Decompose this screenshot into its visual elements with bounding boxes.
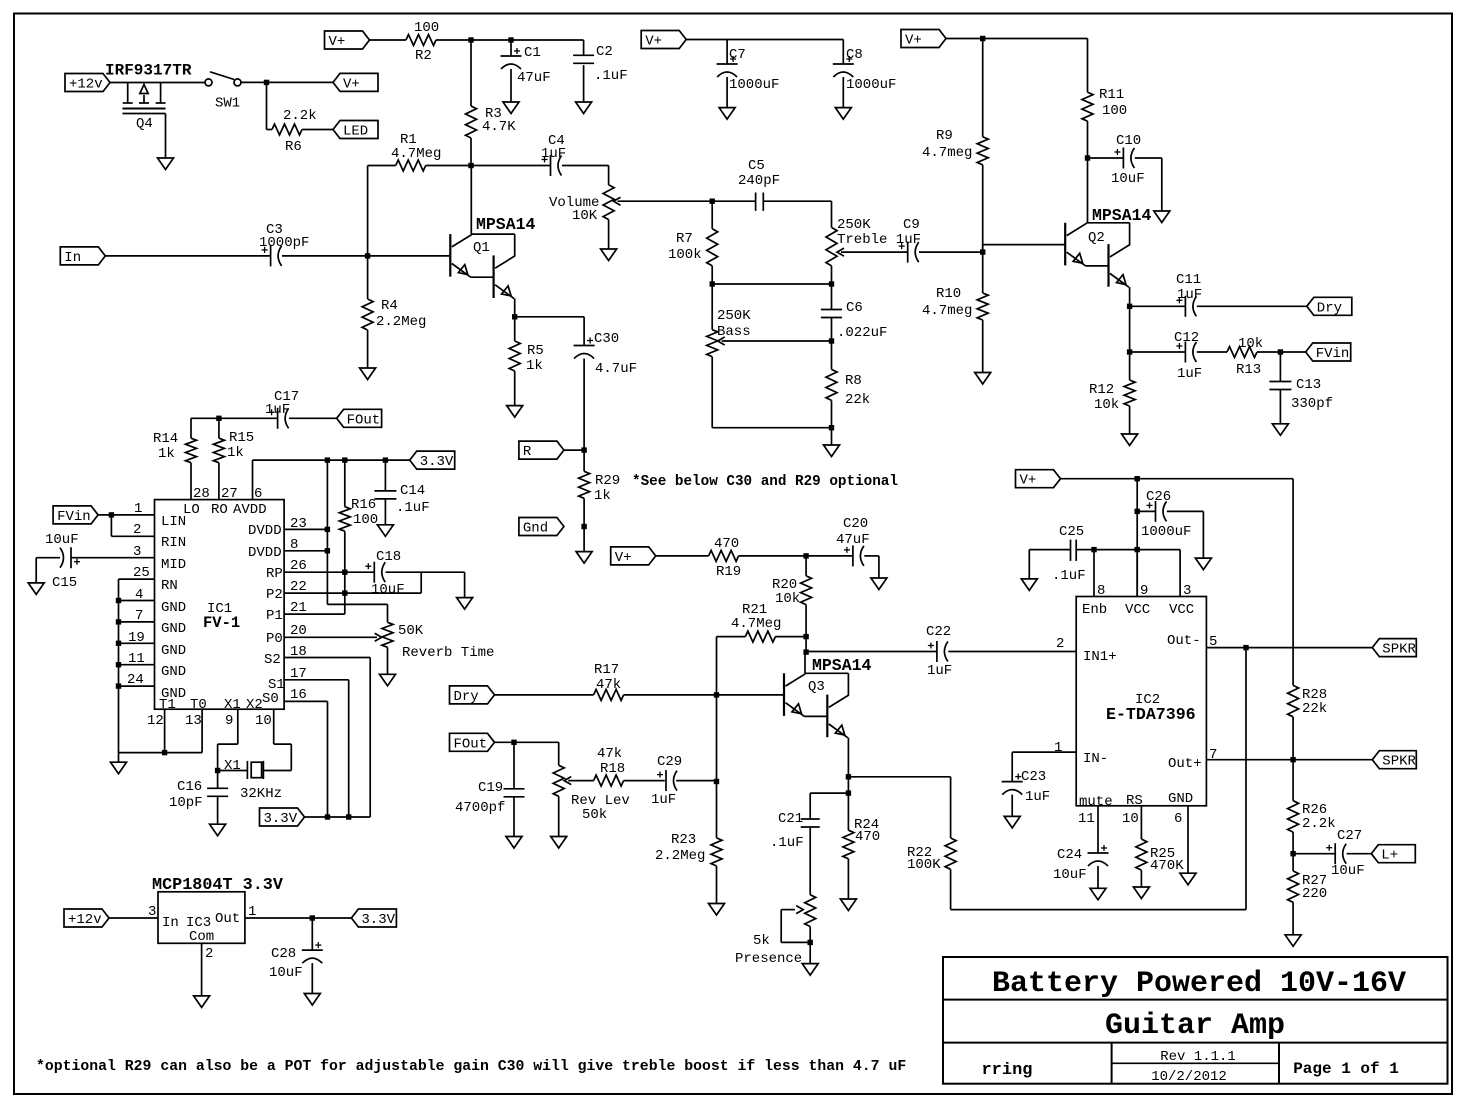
wire S0 pin 16	[284, 687, 327, 817]
node junction RP/R16 column	[342, 570, 347, 575]
svg-text:C18: C18	[376, 549, 401, 565]
svg-text:10/2/2012: 10/2/2012	[1151, 1069, 1227, 1085]
ground below presence pot	[802, 964, 818, 976]
ground below C10	[1154, 211, 1170, 223]
transistor Q4 IRF9317TR p-mosfet	[105, 62, 205, 159]
svg-text:1uF: 1uF	[651, 792, 676, 808]
svg-text:P2: P2	[266, 587, 283, 603]
net flag Dry input lower	[450, 686, 495, 705]
capacitor C2 .1uF	[573, 40, 628, 102]
capacitor C30 4.7uF	[574, 331, 637, 377]
svg-text:1uF: 1uF	[1177, 366, 1202, 382]
net flag LED	[333, 121, 378, 140]
svg-text:SPKR: SPKR	[1382, 754, 1416, 770]
svg-text:470K: 470K	[1150, 858, 1184, 874]
resistor R19 470	[709, 536, 742, 580]
svg-text:C22: C22	[926, 624, 951, 640]
wire R29 to Gnd node	[583, 498, 585, 551]
pin 26 RP wire to C18	[266, 558, 374, 582]
svg-text:Reverb Time: Reverb Time	[402, 645, 494, 661]
ground below C25	[1021, 579, 1037, 591]
ground below R25	[1133, 887, 1149, 899]
resistor R12 10k	[1089, 352, 1135, 413]
capacitor C9 1uF	[899, 217, 983, 263]
wire emitter junction right to R22	[848, 777, 950, 838]
svg-text:1uF: 1uF	[1025, 789, 1050, 805]
wire R6 to LED flag	[302, 129, 333, 131]
svg-text:1k: 1k	[227, 445, 244, 461]
labels S2 S1 inside	[264, 652, 285, 693]
capacitor C29 1uF	[651, 754, 717, 808]
capacitor C17 1uF	[219, 389, 337, 429]
svg-text:1k: 1k	[158, 446, 175, 462]
svg-text:Out: Out	[215, 911, 240, 927]
svg-text:4: 4	[135, 587, 143, 603]
svg-text:V+: V+	[905, 33, 922, 49]
svg-text:4.7Meg: 4.7Meg	[731, 616, 781, 632]
svg-text:R4: R4	[381, 298, 398, 314]
wire R18 to C29	[624, 780, 665, 782]
node junction In/R4	[365, 253, 370, 258]
wire R2 to C2 corner	[436, 39, 584, 41]
svg-text:10K: 10K	[572, 208, 598, 224]
svg-text:26: 26	[290, 558, 307, 574]
svg-text:RP: RP	[266, 566, 283, 582]
node junction R26/C27/R27	[1290, 832, 1295, 871]
svg-text:FV-1: FV-1	[203, 614, 240, 632]
ground below C15	[28, 583, 44, 595]
pin 10 RS wire	[1122, 806, 1141, 839]
capacitor C12 1uF	[1130, 330, 1227, 382]
ground below reverb pot	[380, 674, 396, 686]
ground below tone stack	[824, 428, 840, 457]
ground below R24	[840, 899, 856, 911]
svg-text:X2: X2	[246, 697, 263, 713]
ground below C19	[506, 837, 522, 849]
capacitor C13 330pf	[1269, 352, 1333, 424]
wire pin1 junction to pin 2	[111, 515, 186, 551]
svg-text:MID: MID	[161, 557, 186, 573]
svg-text:GND: GND	[161, 643, 186, 659]
pin 2 label	[1056, 636, 1064, 652]
node junction R8 bottom	[829, 425, 834, 430]
svg-text:10pF: 10pF	[169, 795, 203, 811]
wire R7 to lower junction	[711, 266, 713, 284]
VCC rail wire	[1094, 549, 1180, 551]
ground below C13	[1272, 424, 1288, 436]
pin 11 mute wire	[1078, 806, 1098, 853]
svg-text:In: In	[64, 250, 81, 266]
wire R15 to pin 27	[218, 463, 220, 500]
capacitor C11 1uF	[1130, 272, 1307, 317]
node junction crystal/C16	[215, 768, 220, 773]
svg-text:250K: 250K	[717, 308, 751, 324]
svg-text:MPSA14: MPSA14	[476, 215, 536, 234]
svg-text:1: 1	[134, 501, 142, 517]
pin 13 wire	[185, 709, 202, 752]
regulator IC3 MCP1804T 3.3V	[152, 876, 284, 945]
resistor R23 2.2Meg	[655, 782, 722, 866]
resistor R11 100	[1082, 87, 1127, 121]
resistor R18 47k	[594, 775, 624, 786]
pin 10 wire to crystal	[255, 709, 291, 770]
net flag Dry output	[1307, 297, 1352, 316]
svg-text:Out+: Out+	[1168, 756, 1202, 772]
svg-text:C20: C20	[843, 516, 868, 532]
svg-text:2.2k: 2.2k	[1302, 816, 1336, 832]
svg-text:1000pF: 1000pF	[259, 235, 309, 251]
power flag +12v	[65, 74, 110, 93]
input net flag In	[60, 247, 105, 266]
svg-text:.1uF: .1uF	[396, 500, 430, 516]
resistor R24 470	[843, 793, 880, 859]
svg-text:DVDD: DVDD	[248, 545, 282, 561]
svg-text:R14: R14	[153, 431, 178, 447]
node junction V+/R9	[980, 36, 985, 41]
svg-text:1: 1	[1054, 740, 1062, 756]
note text See below	[632, 474, 898, 490]
capacitor C10 10uF	[1088, 133, 1162, 211]
ground below C23	[1004, 816, 1020, 828]
svg-text:Guitar Amp: Guitar Amp	[1105, 1009, 1285, 1043]
net flag 3.3V out	[351, 909, 396, 928]
svg-text:10k: 10k	[1094, 397, 1119, 413]
wire R9 to base junction	[982, 165, 984, 293]
svg-text:1000uF: 1000uF	[729, 77, 779, 93]
svg-text:28: 28	[193, 486, 210, 502]
svg-text:MPSA14: MPSA14	[812, 656, 872, 675]
svg-text:*See below C30 and R29 optiona: *See below C30 and R29 optional	[632, 474, 898, 490]
node junction R1/R3/C4/Q1 collector	[468, 163, 473, 168]
node junction R13/C13	[1278, 349, 1283, 354]
svg-text:11: 11	[1078, 811, 1095, 827]
resistor R3 4.7K	[466, 106, 517, 138]
capacitor C18 10uF	[365, 549, 464, 598]
power flag V+ amp	[1016, 470, 1061, 489]
svg-text:8: 8	[290, 537, 298, 553]
svg-text:2.2Meg: 2.2Meg	[655, 848, 705, 864]
wire R2 junction down to R3	[470, 40, 472, 106]
net flag Gnd	[519, 518, 564, 537]
svg-text:In: In	[162, 915, 179, 931]
svg-text:100: 100	[353, 512, 378, 528]
node junction R19/R20/C20	[803, 553, 808, 558]
svg-text:9: 9	[225, 713, 233, 729]
svg-text:C21: C21	[778, 811, 803, 827]
svg-text:VCC: VCC	[1169, 602, 1194, 618]
ground below C8	[835, 108, 851, 120]
svg-text:24: 24	[127, 672, 144, 688]
pin 6 label	[254, 486, 262, 502]
ground below C20	[871, 578, 887, 590]
svg-text:FVin: FVin	[57, 509, 91, 525]
ground below Q4	[158, 158, 174, 170]
wire gnd column to pins 12 13	[119, 752, 203, 754]
svg-text:RN: RN	[161, 578, 178, 594]
svg-text:S2: S2	[264, 652, 281, 668]
resistor R7 100k	[668, 201, 718, 266]
svg-text:1k: 1k	[594, 488, 611, 504]
resistor R6 2.2k	[272, 108, 317, 155]
net flag SPKR lower	[1372, 751, 1416, 770]
svg-text:R8: R8	[845, 373, 862, 389]
ground below R23	[709, 904, 725, 916]
svg-text:3: 3	[133, 544, 141, 560]
node junction R15 top	[216, 416, 221, 439]
pin 12 wire	[147, 709, 167, 755]
ground below R27	[1285, 935, 1301, 947]
svg-text:Out-: Out-	[1167, 633, 1201, 649]
svg-text:10uF: 10uF	[1053, 867, 1087, 883]
svg-text:T1: T1	[159, 697, 176, 713]
svg-text:C16: C16	[177, 779, 202, 795]
svg-text:V+: V+	[329, 34, 346, 50]
svg-text:100K: 100K	[907, 857, 941, 873]
capacitor C1 47uF	[501, 40, 551, 102]
svg-text:AVDD: AVDD	[233, 502, 267, 518]
pin 4 GND wire	[116, 587, 186, 616]
ground below Volume	[601, 249, 617, 261]
wire 3.3V column down to reverb pot	[327, 460, 387, 622]
svg-text:4.7meg: 4.7meg	[922, 303, 972, 319]
svg-text:21: 21	[290, 600, 307, 616]
capacitor C25 .1uF	[1029, 524, 1094, 584]
svg-text:C27: C27	[1337, 828, 1362, 844]
net flag FOut lower	[450, 733, 495, 752]
svg-text:C15: C15	[52, 575, 77, 591]
node junction S1 column	[346, 814, 351, 819]
resistor R26 2.2k	[1288, 760, 1336, 832]
pin 7 GND wire	[116, 608, 186, 637]
wire R25 to ground	[1140, 870, 1142, 887]
svg-text:Com: Com	[189, 929, 214, 945]
svg-text:10: 10	[255, 713, 272, 729]
wire R24 to ground	[847, 859, 849, 899]
pin 11 GND wire	[116, 651, 186, 680]
svg-text:GND: GND	[1168, 791, 1193, 807]
svg-text:R12: R12	[1089, 382, 1114, 398]
svg-text:C28: C28	[271, 946, 296, 962]
svg-text:C13: C13	[1296, 377, 1321, 393]
svg-text:Presence: Presence	[735, 951, 802, 967]
capacitor C20 47uF	[836, 516, 879, 578]
wire Q2 emitter down	[1129, 287, 1131, 352]
svg-text:R13: R13	[1236, 362, 1261, 378]
svg-text:SPKR: SPKR	[1382, 642, 1416, 658]
wire S1 pin 17	[284, 666, 349, 817]
wire R13 to FVin	[1257, 351, 1306, 353]
node junction C9/R9/R10 base	[980, 249, 985, 254]
svg-text:100k: 100k	[668, 247, 702, 263]
wire tap left to C21	[810, 793, 848, 819]
pin 1 IN- wire	[1012, 740, 1076, 782]
wire base junction to Q2 base	[983, 245, 1065, 253]
IC U1 FV-1 box	[155, 500, 285, 710]
wire feedback vertical	[1245, 648, 1247, 910]
bottom note text	[36, 1059, 906, 1075]
resistor R15 1k	[213, 430, 254, 463]
svg-text:V+: V+	[1020, 473, 1037, 489]
svg-text:4.7meg: 4.7meg	[922, 145, 972, 161]
svg-text:IN-: IN-	[1083, 751, 1108, 767]
power flag V+ Q2	[901, 30, 946, 49]
svg-text:S1: S1	[268, 677, 285, 693]
svg-text:10uF: 10uF	[371, 582, 405, 598]
svg-text:12: 12	[147, 713, 164, 729]
svg-text:2: 2	[205, 946, 213, 962]
V+ rail wire to R28 column	[1061, 479, 1294, 686]
node junction VCC pin9	[1135, 547, 1140, 552]
wire C30 down to R node	[583, 359, 585, 451]
node junction R2/R3	[468, 37, 473, 42]
pin 9 wire to crystal	[218, 709, 238, 770]
net flag R	[519, 441, 564, 460]
svg-text:V+: V+	[615, 550, 632, 566]
svg-text:1uF: 1uF	[927, 663, 952, 679]
wire emitter junction to C30	[515, 317, 584, 346]
ground below C1	[503, 102, 519, 114]
svg-text:RIN: RIN	[161, 535, 186, 551]
wire R19 to C20	[739, 555, 853, 557]
svg-text:10uF: 10uF	[1111, 171, 1145, 187]
svg-text:6: 6	[1174, 811, 1182, 827]
node junction S0 column	[325, 814, 330, 819]
capacitor C28 10uF	[269, 918, 323, 994]
svg-text:R29: R29	[595, 473, 620, 489]
svg-text:S0: S0	[262, 691, 279, 707]
svg-text:C2: C2	[596, 44, 613, 60]
svg-text:22: 22	[290, 579, 307, 595]
svg-text:P1: P1	[266, 608, 283, 624]
svg-text:Enb: Enb	[1082, 602, 1107, 618]
pin 8 Enb stub	[1094, 550, 1105, 599]
pin 23 DVDD wire	[248, 516, 330, 539]
node junction C28	[310, 915, 315, 920]
svg-text:100: 100	[1102, 103, 1127, 119]
svg-text:2.2k: 2.2k	[283, 108, 317, 124]
node junction Q3 collector/C22	[803, 649, 808, 654]
wire R17 to Q3 base	[624, 694, 784, 696]
svg-text:7: 7	[1209, 747, 1217, 763]
wire IC3 com pin 2 to ground	[202, 943, 214, 996]
wire R21 left to FOut column	[717, 637, 746, 695]
ground below IC3	[194, 996, 210, 1008]
node junction Out-/feedback	[1243, 645, 1248, 650]
svg-text:.022uF: .022uF	[837, 325, 887, 341]
svg-text:R2: R2	[415, 48, 432, 64]
resistor R27 220	[1288, 871, 1328, 902]
svg-text:3.3V: 3.3V	[264, 811, 298, 827]
3.3V rail wire	[253, 460, 410, 500]
node junction R11/C10	[1085, 155, 1090, 160]
power flag V+ for C7 C8	[641, 31, 686, 50]
svg-text:Dry: Dry	[454, 689, 479, 705]
bottom inside labels T1 T0 X1 X2 S0	[159, 691, 279, 713]
node junction R / R29	[581, 447, 586, 452]
resistor R10 4.7meg	[922, 286, 988, 320]
wire S2 pin 18	[284, 644, 370, 817]
pin 9 VCC stub	[1137, 550, 1148, 599]
wire V+ to R11 corner	[946, 39, 1088, 93]
svg-text:IN1+: IN1+	[1083, 649, 1117, 665]
svg-text:250K: 250K	[837, 217, 871, 233]
svg-text:10uF: 10uF	[45, 532, 79, 548]
svg-text:C23: C23	[1021, 769, 1046, 785]
node junction VCC pin8	[1091, 547, 1096, 552]
svg-text:R23: R23	[671, 832, 696, 848]
svg-text:100: 100	[414, 20, 439, 36]
svg-text:27: 27	[221, 486, 238, 502]
ground below C16	[210, 824, 226, 836]
ground below C7	[719, 108, 735, 120]
node junction C12 tap	[1127, 349, 1132, 354]
svg-text:19: 19	[128, 630, 145, 646]
svg-text:2: 2	[133, 522, 141, 538]
svg-text:V+: V+	[343, 76, 360, 92]
potentiometer Treble 250K	[826, 201, 921, 284]
svg-text:Q1: Q1	[473, 240, 490, 256]
svg-text:VCC: VCC	[1125, 602, 1150, 618]
svg-text:R9: R9	[936, 128, 953, 144]
pin 6 GND wire	[1174, 806, 1188, 873]
pin 3 VCC stub	[1180, 550, 1191, 599]
ground below R12	[1122, 434, 1138, 446]
wire Dry to R17	[495, 694, 594, 696]
node junction Volume wiper / R7 / C5	[710, 199, 715, 204]
ground below Rev Lev pot	[551, 837, 567, 849]
svg-text:Rev 1.1.1: Rev 1.1.1	[1160, 1049, 1236, 1065]
resistor R25 470K	[1136, 839, 1184, 874]
svg-text:+12v: +12v	[69, 77, 103, 93]
wire switch to V+ junction	[241, 81, 333, 83]
svg-text:GND: GND	[161, 664, 186, 680]
svg-text:R15: R15	[229, 430, 254, 446]
node junction C6/Bass wiper/R8	[829, 338, 834, 343]
node junction R17/R21/Q3 base	[714, 692, 719, 697]
capacitor C27 10uF	[1293, 828, 1371, 879]
svg-text:18: 18	[290, 644, 307, 660]
wire R8 to bottom junction	[831, 400, 833, 427]
resistor R17 47k	[594, 662, 624, 700]
svg-text:470: 470	[714, 536, 739, 552]
potentiometer Reverb Time 50K	[382, 622, 494, 674]
wire C4 to Volume pot	[608, 166, 610, 185]
resistor R29 1k	[579, 450, 621, 504]
resistor R22 100K	[907, 838, 956, 873]
capacitor C4 1uF	[471, 133, 609, 176]
svg-text:+12v: +12v	[68, 912, 102, 928]
node junction C29/R23	[714, 695, 719, 784]
power flag V+ top left	[325, 31, 370, 50]
svg-text:C10: C10	[1116, 133, 1141, 149]
wire R21 right to junction	[775, 636, 806, 638]
svg-text:47uF: 47uF	[517, 70, 551, 86]
svg-text:R19: R19	[716, 564, 741, 580]
svg-text:FOut: FOut	[347, 412, 381, 428]
node junction R7/Bass/C6 row	[710, 281, 835, 286]
wire C17 junction to R14	[191, 418, 219, 438]
ground below C28	[304, 994, 320, 1006]
wire Volume pot to ground	[608, 220, 610, 250]
capacitor C21 .1uF	[770, 811, 820, 895]
svg-text:R: R	[523, 444, 532, 460]
wire V+ down to C26 and VCC	[1136, 479, 1138, 597]
svg-text:C8: C8	[846, 47, 863, 63]
svg-text:7: 7	[135, 608, 143, 624]
node junction C26 tap	[1135, 509, 1140, 514]
wire V+ to R2	[370, 39, 407, 41]
svg-text:22k: 22k	[845, 392, 870, 408]
